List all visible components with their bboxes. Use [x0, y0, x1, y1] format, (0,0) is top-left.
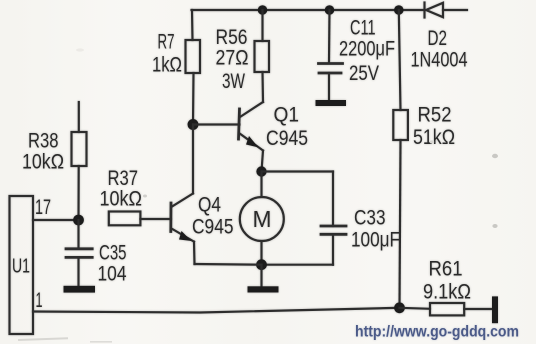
ground motor	[248, 265, 279, 293]
node motor-bottom	[256, 259, 267, 270]
node R52-bottom	[394, 302, 405, 313]
svg-text:Q4: Q4	[198, 194, 221, 217]
node pin17	[73, 215, 84, 226]
svg-text:C33: C33	[354, 207, 386, 230]
wire after diode D2	[443, 9, 467, 11]
node rail-R56	[258, 5, 268, 15]
terminal bar	[492, 296, 498, 323]
diode D2	[425, 3, 444, 18]
resistor R52	[393, 10, 408, 308]
svg-text:1: 1	[36, 289, 43, 312]
resistor R56	[255, 10, 270, 102]
svg-text:C945: C945	[266, 127, 308, 150]
ground C11	[316, 100, 347, 106]
svg-text:1N4004: 1N4004	[411, 49, 468, 72]
svg-text:27Ω: 27Ω	[216, 47, 249, 70]
svg-text:C11: C11	[350, 17, 376, 40]
node rail-C11	[325, 5, 335, 15]
svg-text:M: M	[253, 206, 272, 232]
svg-text:3W: 3W	[222, 70, 245, 93]
wire base Q1	[193, 123, 240, 125]
capacitor C35	[66, 220, 92, 286]
svg-text:R38: R38	[28, 130, 59, 153]
svg-text:C35: C35	[99, 242, 127, 265]
resistor R7	[186, 10, 201, 125]
svg-text:10kΩ: 10kΩ	[22, 151, 64, 174]
wire top rail	[192, 9, 425, 11]
svg-text:1kΩ: 1kΩ	[152, 54, 182, 77]
transistor Q1	[239, 102, 264, 172]
svg-text:R52: R52	[418, 104, 452, 127]
motor M	[240, 172, 284, 265]
scan smudges	[18, 48, 498, 342]
svg-text:51kΩ: 51kΩ	[413, 126, 455, 149]
svg-text:R7: R7	[158, 31, 175, 54]
svg-text:D2: D2	[428, 27, 448, 50]
wire emitter to C33	[262, 170, 334, 172]
IC U1	[10, 196, 34, 334]
svg-text:http://www.go-gddq.com: http://www.go-gddq.com	[355, 324, 519, 341]
node Q1-emitter	[256, 166, 266, 176]
wire pin1 bottom	[33, 308, 400, 313]
svg-text:Q1: Q1	[274, 104, 300, 127]
resistor R37	[109, 212, 171, 226]
ground C35	[64, 286, 96, 293]
svg-text:9.1kΩ: 9.1kΩ	[423, 281, 471, 304]
resistor R61	[400, 303, 492, 315]
svg-text:R61: R61	[429, 258, 463, 281]
resistor R38	[72, 102, 87, 220]
svg-text:25V: 25V	[349, 62, 379, 85]
svg-text:17: 17	[35, 196, 51, 219]
svg-text:2200μF: 2200μF	[339, 38, 395, 61]
node Q1-base	[188, 119, 199, 130]
svg-text:C945: C945	[192, 216, 234, 239]
svg-text:100μF: 100μF	[351, 229, 400, 252]
capacitor C33	[262, 172, 347, 265]
transistor Q4	[171, 125, 262, 265]
svg-text:104: 104	[98, 263, 127, 286]
capacitor C11	[319, 10, 343, 100]
node rail-R52	[394, 5, 404, 15]
svg-text:U1: U1	[12, 256, 30, 278]
svg-text:10kΩ: 10kΩ	[100, 188, 143, 211]
wire pin17	[33, 219, 79, 221]
